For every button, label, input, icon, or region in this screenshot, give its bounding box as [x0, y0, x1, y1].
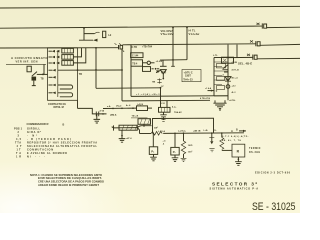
arrow to AG: [156, 70, 160, 72]
plug connector P2 on rail 3: [115, 43, 123, 49]
combinador table rows: [14, 127, 97, 158]
relay K1 circuito ensayo: [27, 64, 48, 85]
resistor R2 hatched: [138, 119, 151, 127]
labels right of spine: [222, 61, 239, 94]
svg-text:DITOL M: DITOL M: [54, 106, 64, 109]
label ticks between P6 P7: [163, 140, 167, 146]
svg-text:+4B 1B: +4B 1B: [193, 129, 201, 132]
svg-text:+1 4.A: +1 4.A: [205, 87, 212, 90]
svg-text:VIG NIVA: VIG NIVA: [161, 29, 174, 33]
node x96 rail3: [95, 47, 97, 49]
node x173 y60: [172, 59, 174, 61]
svg-text:cw²: cw²: [154, 126, 158, 130]
ground G1: [94, 114, 101, 123]
svg-text:TH4-4X: TH4-4X: [174, 111, 182, 114]
svg-text:L 4L: L 4L: [204, 129, 209, 132]
svg-text:TB: TB: [41, 79, 44, 81]
plug connector P4 on SEL branch: [247, 54, 257, 60]
wire bank row2 lead to rail3: [73, 48, 81, 57]
svg-text:SEL. 4B-E: SEL. 4B-E: [238, 62, 252, 66]
contact bank box DITOL M: [48, 48, 78, 101]
svg-text:A CIRCUITO ENSAYO: A CIRCUITO ENSAYO: [11, 56, 48, 60]
svg-text:EDICION 2-3 DCT-956: EDICION 2-3 DCT-956: [255, 172, 291, 175]
label TERMIN DS-3HH: [249, 148, 261, 154]
contact row 5: [49, 76, 56, 79]
lamp on spine: [226, 85, 230, 89]
contact row 3: [49, 62, 60, 65]
wire vertical x122 box outer left: [121, 49, 123, 101]
tick on spine y72: [224, 71, 228, 73]
fork to bus: [137, 126, 151, 134]
label T4 L B: [110, 114, 139, 118]
svg-text:41 TL.B: 41 TL.B: [232, 69, 240, 72]
svg-text:ADILER KDNIK RELIKD IE PRIMIN: ADILER KDNIK RELIKD IE PRIMIN PBY GEMIST: [38, 183, 99, 187]
wire SEL stub to ladder: [214, 57, 228, 59]
ground G2 with node: [119, 130, 126, 142]
resistor R140 vertical zigzag: [181, 133, 185, 158]
ground G5: [181, 158, 187, 161]
switch S1 tap on rail 2: [83, 27, 106, 37]
ground G4: [172, 155, 179, 161]
wire vertical x237: [236, 45, 238, 58]
svg-text:4 TB 4 TA: 4 TB 4 TA: [200, 97, 210, 100]
contact row 7 with loop: [49, 92, 73, 97]
svg-text:B: B: [63, 123, 65, 126]
wire bank border extension down: [77, 100, 79, 108]
wire from x79 into cap branch: [78, 108, 107, 114]
svg-text:a.A: a.A: [107, 105, 111, 108]
label A CIRCUITO ENSAYO: [11, 56, 48, 64]
arrow B continuation: [236, 130, 246, 132]
regulator box TH4: [182, 70, 201, 82]
wire vertical x228 cluster spine: [227, 45, 229, 101]
wire vertical x160 to inner bottom: [160, 88, 162, 101]
relay coil TB4 with pilot lamp: [131, 60, 155, 66]
svg-text:EVW SELECTORES DE CASQUILLAS W: EVW SELECTORES DE CASQUILLAS WKRT-: [38, 176, 102, 180]
ladder rail left: [213, 58, 215, 97]
label rail2 tap group 1: [161, 29, 175, 36]
node x96 y70: [95, 69, 97, 71]
svg-text:4 TA: 4 TA: [100, 109, 105, 112]
box C-144: [131, 53, 143, 58]
plug connector P1 on rail 2: [257, 23, 267, 29]
svg-text:+1,+2(A),+W+3: +1,+2(A),+W+3: [136, 93, 160, 96]
wire under ensayo label: [6, 63, 46, 65]
wire rail 3 left segment: [0, 47, 119, 49]
svg-text:SISTEMA AUTOMATICO P-A: SISTEMA AUTOMATICO P-A: [210, 188, 259, 191]
svg-text:4B, 4L, T, TH: 4B, 4L, T, TH: [222, 139, 242, 142]
relay box R: [232, 144, 245, 157]
node x187 rail2: [186, 27, 188, 29]
svg-text:L+(T)+L: L+(T)+L: [178, 131, 187, 133]
wire vertical x173 from rail2: [172, 28, 174, 60]
wire line1 y127.7: [114, 127, 138, 129]
svg-text:t.d: t.d: [108, 33, 112, 37]
svg-text:100º: 100º: [188, 150, 193, 153]
svg-text:S.T.C 4,4(L),4(TD-: S.T.C 4,4(L),4(TD-: [222, 135, 249, 138]
svg-text:TB 4: TB 4: [132, 62, 138, 65]
contact row 1: [49, 50, 60, 53]
svg-text:TERMIN: TERMIN: [249, 148, 261, 150]
node x173 rail2: [172, 27, 174, 29]
capacitor under TH4 box: [160, 112, 166, 121]
svg-text:REPOSITOR 3ª HAY SELECCION FRO: REPOSITOR 3ª HAY SELECCION FRONTVA: [27, 140, 97, 144]
terminal tick HB: [157, 78, 161, 83]
terminal tick left: [112, 125, 114, 130]
wire rail 3 right segment: [260, 43, 300, 46]
svg-text:MC +4: MC +4: [232, 76, 239, 79]
wire x173 stub below y60: [171, 60, 175, 66]
contact row 2: [49, 56, 60, 59]
bus wire left part: [140, 133, 152, 135]
resistor zigzag x222: [220, 133, 232, 150]
svg-text:I4 TL: I4 TL: [189, 29, 196, 33]
wire horizontal y60: [160, 59, 187, 61]
wire vertical x131 box inner left: [130, 45, 132, 97]
svg-text:HB: HB: [152, 81, 156, 83]
wire SEL branch: [228, 56, 253, 58]
svg-text:C-144: C-144: [132, 55, 139, 58]
node y70 x122: [121, 69, 123, 71]
svg-text:C.TB: C.TB: [132, 47, 138, 49]
svg-text:L.TU A: L.TU A: [158, 130, 165, 133]
svg-text:SE - 31025: SE - 31025: [252, 201, 296, 213]
label rail2 tap group 2: [189, 29, 201, 36]
svg-text:VTa+1/2w: VTa+1/2w: [161, 32, 175, 36]
svg-text:TH4+-23: TH4+-23: [183, 78, 193, 81]
combiner frame box: [153, 118, 214, 133]
contact row 4: [49, 69, 123, 72]
svg-text:(T)+2: (T)+2: [116, 105, 122, 107]
svg-text:P₇: P₇: [173, 150, 176, 154]
svg-text:4 +2B: 4 +2B: [232, 61, 238, 64]
labels mid row y104-110: [107, 104, 144, 108]
wire vertical x187 from rail2: [186, 27, 188, 59]
switch S1 second arm: [79, 34, 98, 42]
svg-text:15BT: 15BT: [185, 75, 191, 78]
resistor R1 hatched: [119, 125, 137, 130]
bus wire main: [163, 132, 244, 135]
svg-text:CRE UNA SELECTORA DE A PASOS P: CRE UNA SELECTORA DE A PASOS POR CONMDO: [38, 180, 104, 184]
svg-text:SELECTOR 3ª: SELECTOR 3ª: [212, 181, 257, 186]
wire horizontal y88: [96, 87, 161, 90]
capacitor C1: [96, 112, 103, 117]
label F with arrow: [205, 87, 218, 93]
relay coil row 4: [143, 67, 160, 72]
wire bank row3 lead to rail3: [73, 48, 85, 63]
svg-text:+4 TA-: +4 TA-: [229, 99, 236, 102]
node y88 right end: [160, 87, 162, 89]
svg-text:T4 L.B: T4 L.B: [132, 115, 139, 118]
svg-text:+5 4 A: +5 4 A: [156, 60, 163, 63]
svg-text:4.L+: 4.L+: [172, 105, 177, 108]
ground G7 under R: [235, 157, 242, 165]
ladder small box: [217, 64, 226, 68]
ladder small box 2: [217, 77, 225, 81]
svg-text:NOTA 1: CUANDO SE SUPRIMEN SEL: NOTA 1: CUANDO SE SUPRIMEN SELECCIONES G…: [30, 173, 102, 177]
ground G8: [213, 100, 226, 111]
wire box inner bottom y96: [131, 95, 228, 98]
svg-text:+4T 4: +4T 4: [126, 137, 132, 140]
svg-text:VER INF. GEN: VER INF. GEN: [16, 61, 38, 64]
ladder small box 3: [217, 86, 225, 90]
arrow drop x211: [209, 133, 214, 144]
coil box row 2: [62, 55, 74, 60]
relay P6: [149, 134, 157, 155]
svg-text:1R: 1R: [16, 155, 21, 158]
svg-text:1KΩ: 1KΩ: [188, 145, 193, 147]
wire rail 3 middle segment: [123, 44, 256, 45]
nodes on bus: [153, 132, 223, 134]
plug component mid row: [137, 106, 153, 111]
svg-text:L.TL: L.TL: [213, 55, 218, 57]
relay P7: [171, 133, 179, 155]
ground G6 small: [209, 149, 214, 152]
relay coil top of spine: [222, 57, 234, 63]
label 1K 100: [188, 145, 193, 153]
wire box outer bottom y100.8: [122, 99, 210, 102]
coil box row 3: [62, 61, 74, 66]
contact row 6 with loop: [49, 84, 73, 89]
resistor zigzag on bus: [151, 132, 162, 136]
ground G3: [150, 154, 157, 160]
plug connector P3 on rail 3: [250, 40, 260, 46]
svg-text:COMBINADOR R: COMBINADOR R: [27, 122, 50, 126]
wire stubs into TH4 box: [161, 101, 168, 108]
wire top rail 2 left segment: [0, 26, 262, 28]
svg-text:V1J+3w: V1J+3w: [189, 32, 201, 36]
labels above bus: [158, 129, 217, 133]
svg-text:DS-3HH: DS-3HH: [249, 152, 261, 154]
note NOTA block: [30, 173, 104, 187]
label S.T.C lines: [222, 135, 249, 142]
wire mid row y108: [103, 107, 137, 109]
svg-text:A: A: [231, 129, 233, 133]
wire top rail 1: [0, 6, 300, 8]
bracket over resistor: [131, 117, 148, 119]
svg-text:+TB+TH4: +TB+TH4: [142, 46, 153, 49]
svg-text:TB: TB: [79, 73, 82, 76]
contact common bar: [57, 50, 59, 97]
svg-text:(4B).A: (4B).A: [110, 114, 117, 117]
diode D2 on spine: [225, 77, 231, 82]
label contact bank caption: [48, 103, 66, 109]
wire vertical x96 from rail3: [95, 48, 97, 88]
ladder rungs: [214, 62, 228, 96]
coil box row 1: [62, 48, 74, 53]
wire SEL right segment: [257, 57, 300, 59]
node bank border y70: [77, 69, 79, 71]
relay box TH4-4X: [159, 107, 171, 112]
contact arrow on spine: [222, 65, 228, 70]
label cluster right of plug P2: [132, 46, 153, 49]
wire top rail 2 right segment: [267, 26, 300, 28]
node x228 SEL junction: [227, 57, 229, 59]
nodes on mid row: [112, 107, 134, 109]
diode chain under y60: [160, 60, 167, 79]
